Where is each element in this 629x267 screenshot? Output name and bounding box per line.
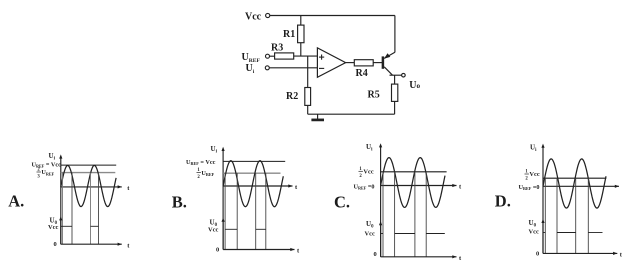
plot D Uo axis vertical [541, 219, 544, 254]
wire R4 to base [373, 62, 382, 64]
plot D input sine wave [543, 159, 606, 208]
plot D pulse edge line 2 [556, 178, 558, 253]
svg-text:0: 0 [54, 241, 57, 248]
svg-text:t: t [297, 248, 300, 255]
plot C Uo axis vertical [379, 221, 382, 257]
plot D pulse edge line 1 [544, 178, 546, 253]
plot D threshold label [525, 170, 540, 182]
plot B Uo pulse top segment 1 [225, 228, 237, 230]
plot B upper t axis [223, 184, 298, 191]
plot A pulse edge line 3 [90, 173, 92, 245]
plot C pulse edge line 2 [394, 172, 396, 257]
svg-text:A.: A. [8, 192, 24, 211]
svg-text:Vcc: Vcc [245, 11, 262, 22]
ground [311, 114, 324, 120]
svg-text:R4: R4 [356, 68, 368, 79]
wire R3 to op-amp noninverting input [294, 55, 318, 57]
plot C Uo pulse top segment 2 [395, 233, 415, 235]
svg-text:Vcc: Vcc [529, 171, 539, 178]
plot D Ui axis vertical [541, 144, 544, 254]
op-amp U1 [317, 48, 345, 77]
svg-text:2: 2 [525, 177, 528, 182]
wire collector to Uo [390, 74, 402, 76]
UREF terminal circle [266, 54, 270, 58]
svg-text:Vcc: Vcc [48, 224, 58, 231]
svg-text:t: t [459, 184, 462, 191]
wire R1 bottom [300, 43, 302, 56]
svg-text:Vcc: Vcc [529, 229, 539, 236]
svg-text:UREF = Vcc: UREF = Vcc [186, 159, 216, 166]
svg-text:0: 0 [536, 250, 539, 257]
svg-text:Ui: Ui [211, 145, 218, 154]
svg-text:C.: C. [334, 192, 350, 211]
plot D Uo pulse top segment 3 [588, 232, 602, 234]
wire R2 bottom [307, 105, 309, 114]
plot A threshold line 1 [61, 164, 116, 166]
plot D pulse edge line 4 [587, 178, 589, 253]
svg-text:U0: U0 [529, 219, 537, 228]
svg-text:D.: D. [495, 191, 511, 210]
plot D upper t axis [543, 185, 619, 188]
plot A Uo axis vertical [59, 216, 62, 244]
wire emitter to Vcc rail [394, 16, 396, 53]
svg-text:Vcc: Vcc [363, 169, 373, 176]
plot A upper t axis [61, 185, 131, 192]
plot B Ui axis vertical [222, 147, 225, 250]
plot C Uo pulse top segment 3 [426, 233, 445, 235]
transistor Q1 base bar [382, 56, 385, 68]
wire to R5 [394, 75, 396, 84]
resistor R4 [354, 60, 373, 66]
svg-text:UREF =0: UREF =0 [519, 184, 540, 191]
plot B threshold line 2 [223, 172, 280, 174]
plot B pulse edge line 1 [224, 173, 226, 249]
plot C lower t axis [381, 255, 462, 262]
plot C pulse edge line 3 [414, 172, 416, 257]
svg-text:U0: U0 [366, 220, 374, 229]
svg-text:UREF =0: UREF =0 [354, 183, 375, 190]
svg-text:0: 0 [216, 247, 219, 254]
svg-text:UREF = Vcc: UREF = Vcc [32, 162, 62, 169]
plot C Uo pulse top segment 1 [381, 233, 383, 235]
svg-text:t: t [459, 255, 462, 262]
plot B input sine wave [223, 161, 283, 207]
svg-text:UREF: UREF [201, 170, 214, 177]
plot C threshold label [359, 167, 374, 179]
svg-text:R3: R3 [271, 43, 283, 54]
wire ground rail [308, 113, 395, 115]
plot A lower t axis [61, 242, 131, 249]
svg-text:Vcc: Vcc [365, 231, 375, 238]
plot D lower t axis [543, 252, 623, 259]
svg-text:R5: R5 [368, 89, 380, 100]
plot A threshold line 2 [61, 172, 116, 174]
plot D Uo pulse top segment 1 [543, 232, 545, 234]
transistor Q1 collector [384, 67, 392, 75]
plot C Ui axis vertical [379, 143, 382, 257]
plot A pulse edge line 2 [71, 173, 73, 245]
plot A Uo pulse top segment 1 [61, 225, 72, 227]
plot B Uo axis vertical [222, 218, 225, 250]
plot C upper t axis [381, 184, 462, 191]
wire Vcc rail [270, 15, 395, 17]
svg-text:3: 3 [37, 175, 40, 180]
plot C pulse edge line 4 [425, 172, 427, 257]
wire R5 bottom [394, 101, 396, 114]
svg-text:2: 2 [359, 174, 362, 179]
wire op-amp output to R4 [346, 62, 355, 64]
resistor R5 [392, 84, 398, 101]
plot C threshold line 1 [381, 171, 447, 173]
resistor R1 [298, 25, 304, 43]
plot B threshold line 1 [223, 160, 285, 162]
plot A pulse edge line 4 [98, 173, 100, 245]
op-amp minus pin mark [319, 67, 324, 69]
plot A pulse edge line 1 [62, 173, 64, 245]
plot A Ui axis vertical [59, 154, 62, 244]
svg-text:Uo: Uo [409, 80, 420, 91]
transistor Q1 emitter with arrow [384, 52, 395, 59]
svg-text:t: t [127, 185, 130, 192]
plot D Uo pulse top segment 2 [557, 232, 576, 234]
Vcc terminal circle [266, 13, 270, 17]
wire node A down to R2 [307, 56, 309, 87]
wire R1 top [300, 16, 302, 26]
svg-text:t: t [295, 184, 298, 191]
svg-text:t: t [620, 252, 623, 259]
svg-text:0: 0 [374, 251, 377, 258]
svg-text:R1: R1 [283, 29, 295, 40]
wire Ui to op-amp inverting input [269, 67, 317, 69]
Uo terminal circle [402, 73, 406, 77]
svg-text:2: 2 [197, 175, 200, 180]
svg-text:Vcc: Vcc [208, 227, 218, 234]
plot A Uo pulse top segment 2 [91, 225, 99, 227]
plot B pulse edge line 2 [236, 173, 238, 249]
plot A input sine wave [61, 165, 116, 206]
svg-text:Ui: Ui [49, 152, 56, 161]
Ui terminal circle [265, 66, 269, 70]
plot A threshold label [37, 168, 55, 180]
svg-text:Ui: Ui [246, 63, 255, 75]
svg-text:Ui: Ui [530, 144, 537, 153]
plot B Uo pulse top segment 2 [256, 228, 266, 230]
svg-text:B.: B. [172, 192, 187, 211]
svg-text:t: t [127, 242, 130, 249]
wire UREF to R3 [270, 55, 275, 57]
svg-text:R2: R2 [286, 91, 298, 102]
svg-text:Ui: Ui [366, 143, 373, 152]
plot B lower t axis [223, 248, 300, 255]
plot D pulse edge line 3 [575, 178, 577, 253]
op-amp plus pin mark [319, 55, 324, 60]
resistor R2 [305, 88, 311, 106]
resistor R3 [275, 53, 294, 59]
plot B pulse edge line 3 [255, 173, 257, 249]
plot C input sine wave [381, 158, 445, 208]
plot B threshold label [197, 168, 215, 180]
plot D threshold line 1 [543, 177, 606, 179]
svg-text:UREF: UREF [41, 169, 54, 176]
plot C pulse edge line 1 [382, 172, 384, 257]
plot B pulse edge line 4 [265, 173, 267, 249]
